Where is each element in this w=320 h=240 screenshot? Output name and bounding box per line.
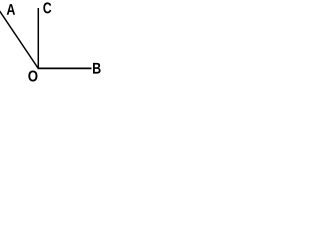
node label O [28,70,37,81]
wire ray OB (horizontal) [38,67,92,69]
background [0,0,105,83]
node label A [7,4,15,15]
node label C [43,2,51,13]
wire ray OA (diagonal) [0,10,38,69]
geometry figure: rays OA, OC, OB from vertex O [0,0,105,83]
wire ray OC (vertical) [37,8,39,69]
node label B [93,63,101,74]
